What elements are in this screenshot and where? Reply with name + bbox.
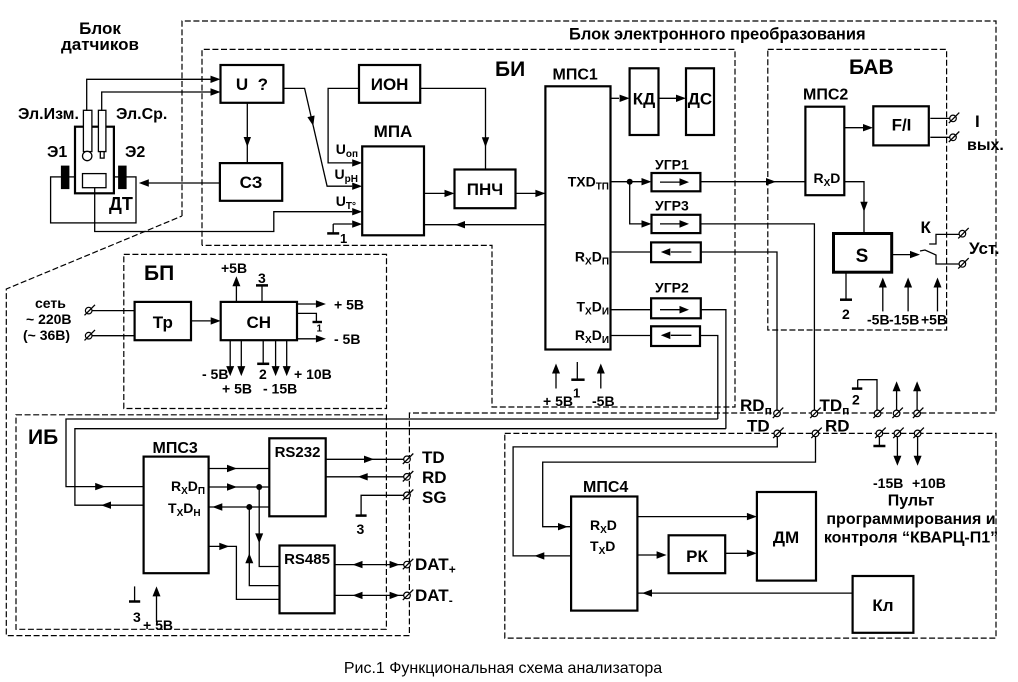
- block РК: [669, 535, 726, 573]
- terminal circle I out 1: [949, 113, 960, 124]
- block Кл: [853, 576, 914, 633]
- svg-text:датчиков: датчиков: [61, 35, 139, 54]
- wire: МПС3 bottom to RS485: [209, 546, 280, 599]
- svg-text:СЗ: СЗ: [240, 173, 263, 192]
- terminal circle RDп: [773, 408, 784, 419]
- sensor vessel: [75, 127, 114, 194]
- wire: F/I output 2: [930, 136, 950, 138]
- svg-text:Пульт: Пульт: [888, 493, 935, 510]
- terminal circle TD пульт: [773, 428, 784, 439]
- svg-text:RD: RD: [422, 468, 447, 487]
- switch К: [920, 218, 959, 264]
- svg-text:+ 5В: + 5В: [543, 393, 573, 409]
- wire: junction to УГР3: [630, 182, 642, 224]
- svg-text:-15В: -15В: [873, 475, 903, 491]
- block ДМ: [757, 492, 816, 581]
- wire: junction down to RS485: [259, 487, 279, 567]
- dashed frame: БИ (L-shaped): [202, 49, 735, 407]
- terminal circle -15В row 2: [893, 428, 904, 439]
- svg-text:Кл: Кл: [872, 596, 893, 615]
- ground 3 below МПС3: [129, 586, 141, 625]
- terminal circle Уст upper: [958, 228, 969, 239]
- wire: МПС4 to ДМ: [637, 516, 747, 518]
- svg-text:+10В: +10В: [912, 475, 946, 491]
- wire: МПС1 TxDи row: [611, 309, 652, 311]
- block RS485: [280, 546, 335, 614]
- wire: ИОН to ПНЧ: [420, 88, 485, 169]
- electrode pad Э1: [61, 166, 70, 190]
- buffer УГР3: [652, 198, 701, 234]
- wire: МПА to ПНЧ: [424, 192, 445, 194]
- svg-text:Блок электронного преобразован: Блок электронного преобразования: [569, 26, 866, 44]
- svg-text:2: 2: [852, 392, 860, 408]
- wire: RS485 DAT-: [335, 594, 404, 596]
- block Тр: [135, 302, 191, 340]
- svg-text:ДМ: ДМ: [773, 528, 799, 547]
- svg-text:I: I: [975, 112, 980, 131]
- svg-text:Рис.1 Функциональная схема ана: Рис.1 Функциональная схема анализатора: [344, 660, 662, 677]
- svg-text:МПС4: МПС4: [583, 479, 628, 496]
- svg-text:3: 3: [357, 521, 365, 537]
- long wire B: МПС3 TxDн to УГР2: [75, 429, 726, 506]
- terminal circle TDп: [810, 408, 821, 419]
- terminal circle power 1 row 1: [873, 408, 884, 419]
- power arrows below МПС1: [543, 364, 573, 410]
- ground 2 at terminal row 1: [852, 380, 877, 411]
- wire: electrode Эл.Ср. to U?: [102, 92, 211, 111]
- svg-text:TD: TD: [747, 417, 770, 436]
- power arrow -5В БАВ: [867, 278, 890, 328]
- long wire A: from RxDи buffer to МПС3 RxDп: [66, 419, 718, 487]
- power arrow -15В БАВ: [889, 278, 919, 328]
- terminal circle DAT-: [403, 590, 414, 601]
- svg-text:-5В: -5В: [867, 312, 890, 328]
- block КД: [630, 68, 659, 135]
- svg-text:сеть: сеть: [35, 295, 66, 311]
- wire: electrode Эл.Изм. to U?: [87, 79, 211, 111]
- wire: СЗ to sensor ДТ: [148, 182, 220, 184]
- svg-text:вых.: вых.: [967, 137, 1004, 154]
- block МПС2: [805, 107, 844, 196]
- wire: УГР1 to МПС2 RxD: [700, 181, 805, 183]
- svg-text:+ 5В: + 5В: [143, 617, 173, 633]
- wire: terminal RDп to buffer RxDп: [701, 252, 777, 411]
- terminal circle +10В row 2: [913, 428, 924, 439]
- power arrow -5В below СН a: [202, 340, 234, 382]
- wire: МПС2 to F/I: [844, 127, 863, 129]
- svg-text:Уст.: Уст.: [969, 239, 1000, 258]
- power arrow down +10В: [912, 436, 946, 491]
- svg-text:Тр: Тр: [153, 313, 173, 332]
- wire: RS485 DAT+: [335, 564, 404, 566]
- wire: ground to МПА: [333, 223, 352, 225]
- block S: [834, 234, 892, 273]
- terminal circle сеть 2: [85, 330, 96, 341]
- svg-text:программирования и: программирования и: [826, 511, 995, 528]
- buffer УГР1: [652, 157, 701, 192]
- wire: СН -5В right: [297, 331, 360, 347]
- svg-text:ИБ: ИБ: [28, 426, 58, 449]
- svg-text:РК: РК: [686, 547, 708, 566]
- svg-text:МПС3: МПС3: [153, 440, 198, 457]
- wire: УГР2 down (long wire B right end): [701, 310, 726, 429]
- svg-text:+ 5В: + 5В: [334, 297, 364, 313]
- svg-text:-15В: -15В: [889, 312, 919, 328]
- terminal circle I out 2: [949, 132, 960, 143]
- power arrow +5В below МПС3: [143, 586, 173, 633]
- wire: RS485 up to junction: [249, 507, 279, 586]
- ground below row 2: [873, 436, 885, 446]
- power arrow -15В below СН: [263, 340, 297, 396]
- svg-text:DAT-: DAT-: [415, 586, 453, 608]
- svg-text:МПС2: МПС2: [803, 87, 848, 104]
- svg-text:TD: TD: [422, 448, 445, 467]
- svg-text:SG: SG: [422, 488, 447, 507]
- block СН: [221, 302, 297, 340]
- svg-text:- 5В: - 5В: [334, 331, 360, 347]
- wire: МПС1 ТХД to УГР1 with junction: [611, 181, 642, 183]
- wire: S to switch К: [892, 254, 912, 256]
- svg-text:1: 1: [573, 386, 580, 401]
- long wire D: RD пульт to МПС4 RxD: [543, 436, 816, 526]
- wire: ПНЧ to МПС1: [516, 192, 546, 194]
- wire: ДТ to МПА UТ°: [95, 188, 353, 232]
- svg-text:1: 1: [340, 231, 347, 246]
- terminal circle Уст lower: [958, 258, 969, 269]
- power arrow +5В above СН: [221, 260, 247, 302]
- svg-text:УГР1: УГР1: [655, 157, 689, 173]
- power arrow up row1 a: [893, 381, 901, 410]
- svg-text:СН: СН: [247, 313, 272, 332]
- svg-text:контроля “КВАРЦ-П1”: контроля “КВАРЦ-П1”: [824, 530, 998, 547]
- svg-text:-5В: -5В: [592, 393, 615, 409]
- terminal circle DAT+: [403, 559, 414, 570]
- svg-text:БП: БП: [144, 262, 174, 285]
- dashed frame: ИБ: [16, 415, 386, 630]
- svg-text:Эл.Ср.: Эл.Ср.: [116, 106, 167, 123]
- svg-text:(~ 36В): (~ 36В): [23, 327, 70, 343]
- wire: СН +5В right: [297, 297, 364, 313]
- electrode Эл.Изм. body: [83, 110, 92, 151]
- svg-text:Эл.Изм.: Эл.Изм.: [18, 106, 79, 123]
- svg-text:+5В: +5В: [921, 312, 947, 328]
- svg-text:S: S: [856, 246, 869, 267]
- block U?: [221, 65, 284, 103]
- wire: Кл to МПС4: [637, 592, 853, 594]
- ground 1 below МПС1: [571, 362, 584, 401]
- svg-text:ДС: ДС: [688, 90, 712, 109]
- buffer RxDи receive: [651, 326, 700, 346]
- power arrow down -15В: [873, 436, 903, 491]
- dashed frame: БП: [124, 254, 387, 408]
- common rail 2 below СН: [257, 340, 269, 382]
- wire: buffer RxDи down (long wire A right end): [700, 336, 717, 420]
- block F/I: [873, 106, 929, 145]
- svg-text:U ?: U ?: [236, 75, 268, 94]
- terminal circle ground row 2: [875, 428, 886, 439]
- svg-text:Э1: Э1: [47, 144, 67, 161]
- svg-text:+ 5В: + 5В: [222, 381, 252, 397]
- electrode pad Э2: [118, 166, 127, 190]
- power arrow +5В below СН b: [222, 340, 252, 396]
- svg-text:1: 1: [317, 324, 323, 335]
- ground 2 below S: [840, 272, 852, 322]
- wire: Тр to СН: [191, 320, 211, 322]
- wire: МПС1 RxDи row: [611, 335, 652, 337]
- block МПС4: [571, 497, 637, 611]
- power arrow up row1 b: [913, 381, 921, 410]
- dashed frame: Пульт КВАРЦ-П1: [505, 433, 996, 638]
- wire: МПС3 to RS232 row 1: [209, 468, 270, 470]
- svg-text:RS232: RS232: [275, 444, 321, 461]
- temperature sensor ДТ inner: [83, 174, 107, 188]
- svg-text:+5В: +5В: [221, 260, 247, 276]
- wire: RS232 TD out: [326, 458, 404, 460]
- dashed frame: БАВ: [768, 49, 947, 330]
- svg-text:К: К: [921, 218, 932, 237]
- block МПА: [362, 146, 424, 235]
- svg-text:+ 10В: + 10В: [294, 366, 332, 382]
- buffer RxDп receive: [651, 242, 701, 262]
- svg-text:БАВ: БАВ: [849, 56, 894, 79]
- terminal circle TD ИБ: [403, 454, 414, 465]
- wire: КД to ДС: [659, 97, 677, 99]
- wire: УГР3 to terminal TDп: [700, 224, 814, 411]
- power arrow +10В below СН: [283, 340, 332, 382]
- wire: МПС1 to МПА feedback: [424, 224, 545, 226]
- svg-text:Э2: Э2: [125, 144, 145, 161]
- wire: ИОН to МПА Uоп: [328, 88, 359, 162]
- svg-text:МПС1: МПС1: [553, 67, 598, 84]
- buffer УГР2: [651, 280, 701, 319]
- svg-text:3: 3: [133, 609, 141, 625]
- terminal circle SG ИБ: [403, 490, 414, 501]
- power arrow -5В below МПС1: [592, 364, 615, 410]
- svg-text:~ 220В: ~ 220В: [26, 311, 72, 327]
- terminal circle RD пульт: [811, 428, 822, 439]
- common rail 3 above СН: [256, 270, 268, 302]
- svg-text:3: 3: [258, 270, 266, 286]
- block СЗ: [220, 163, 282, 201]
- wire: F/I output 1: [930, 117, 950, 119]
- wire: МПС4 TxD to РК: [637, 554, 658, 556]
- svg-text:ДТ: ДТ: [109, 194, 133, 214]
- wire: РК to ДМ: [725, 552, 747, 554]
- block ПНЧ: [455, 170, 516, 209]
- wire: RS232 to МПС3 row 3 with junction: [209, 506, 270, 508]
- sensor assembly thin frame ДТ: [51, 177, 136, 223]
- wire: МПС3 to RS232 row 2 with junction: [209, 486, 270, 488]
- terminal circle сеть 1: [85, 305, 96, 316]
- wire: сеть 2 to Тр: [92, 335, 135, 337]
- long wire C: TD пульт to МПС4 TxD: [513, 436, 777, 556]
- svg-text:УГР3: УГР3: [655, 198, 689, 214]
- electrode Эл.Ср. body: [98, 110, 106, 151]
- svg-text:КД: КД: [633, 90, 656, 109]
- wire: U? to СЗ: [246, 103, 248, 163]
- svg-text:2: 2: [842, 306, 850, 322]
- svg-text:RS485: RS485: [284, 551, 330, 568]
- svg-text:F/I: F/I: [892, 116, 912, 135]
- ground 1 at МПА: [332, 224, 334, 233]
- block МПС1: [545, 86, 610, 349]
- terminal circle power 2 row 1: [892, 408, 903, 419]
- block МПС3: [144, 457, 209, 574]
- wire: SG to ground 3: [361, 495, 404, 515]
- wire: U? to МПА UрН (slanted): [283, 88, 352, 186]
- block RS232: [269, 438, 325, 516]
- wire: МПС1 to КД: [611, 97, 620, 99]
- svg-text:RD: RD: [825, 417, 850, 436]
- terminal circle RD ИБ: [403, 471, 414, 482]
- block ИОН: [359, 65, 420, 103]
- electrode Эл.Изм. bulb: [83, 151, 92, 160]
- svg-text:БИ: БИ: [495, 58, 525, 81]
- wire: RS232 RD in: [326, 476, 404, 478]
- svg-text:УГР2: УГР2: [655, 280, 689, 296]
- svg-text:МПА: МПА: [374, 122, 413, 141]
- wire: МПС2 RxD to S: [844, 182, 864, 234]
- svg-text:ПНЧ: ПНЧ: [467, 180, 503, 199]
- power arrow +5В БАВ: [921, 278, 947, 328]
- terminal circle power 3 row 1: [913, 408, 924, 419]
- svg-text:ИОН: ИОН: [371, 75, 409, 94]
- electrode Эл.Ср. tip: [100, 152, 104, 159]
- wire: сеть 1 to Тр: [92, 310, 135, 312]
- svg-text:- 15В: - 15В: [263, 381, 297, 397]
- wire: МПС1 RxDп row: [611, 251, 652, 253]
- common rail 1 right of СН: [297, 313, 323, 334]
- block ДС: [686, 68, 714, 135]
